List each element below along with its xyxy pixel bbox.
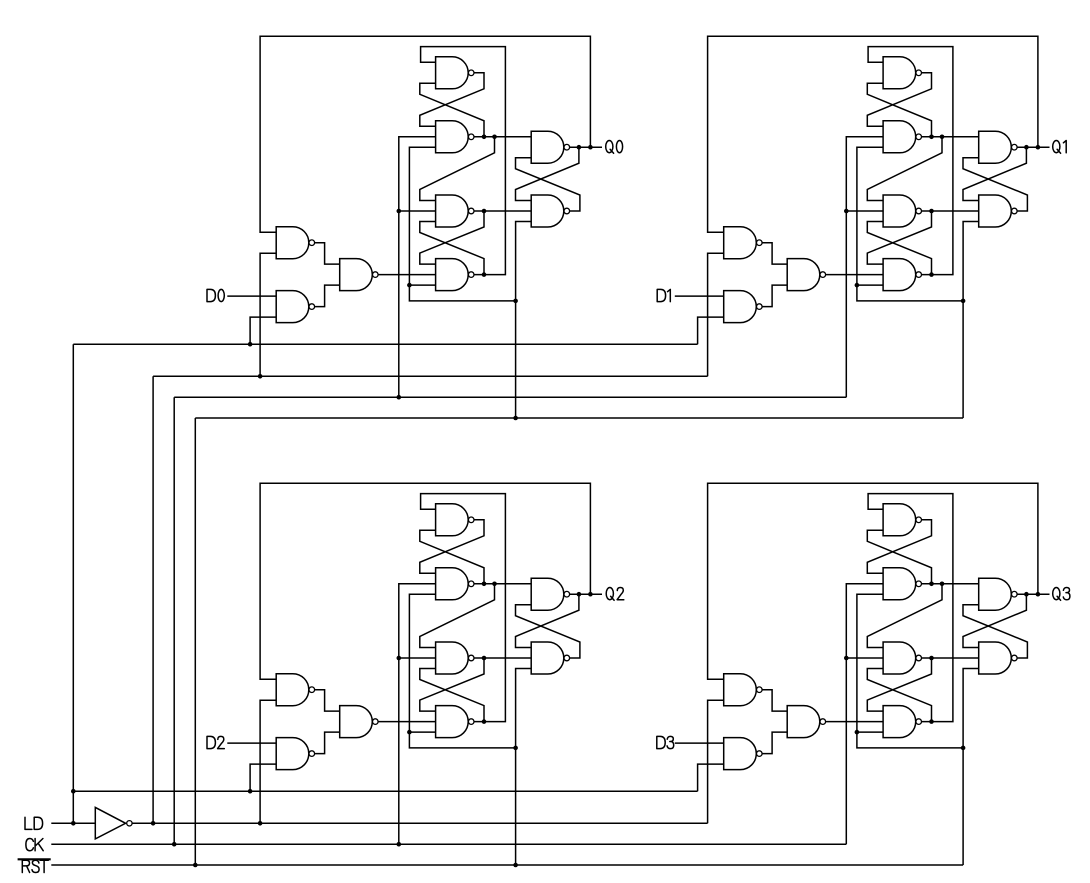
wire LDbar vertical	[152, 376, 154, 823]
wire bit1 set out to reset pin1	[867, 137, 942, 201]
NAND gate bit3 hold-select U3A	[724, 674, 762, 706]
wire bit2 hold gate output to combiner pin1	[315, 690, 340, 711]
wire LDbar rail row1	[153, 375, 708, 377]
node RST input tap	[193, 863, 198, 868]
NAND gate bit3 FF-latch2-bottom U3G	[883, 706, 921, 738]
wire bit3 Qbar out to Q pin2 cross	[963, 605, 1027, 658]
label Q1	[1053, 140, 1067, 153]
wire bit3 RST riser	[963, 669, 979, 866]
label LD	[25, 817, 43, 829]
wire bit3 reset out to latch2 pin1 cross	[867, 658, 931, 711]
node bit2 CK rail tap	[397, 842, 402, 847]
wire bit3 mux output to FF latch2 mid input	[826, 721, 883, 723]
NAND gate bit0 FF-latch1-top U0D	[436, 57, 474, 89]
NAND gate bit2 FF-reset U2F	[436, 642, 474, 674]
NAND gate bit2 hold-select U2A	[276, 674, 314, 706]
node bit2 RST rail tap	[513, 863, 518, 868]
wire bit2 Q feedback top rail to hold gate pin1	[260, 483, 590, 679]
inverter U10 LD	[95, 807, 132, 839]
wire bit2 latch2 out to reset pin3 cross	[420, 669, 484, 722]
wire bit2 Qbar out to Q pin2 cross	[516, 605, 580, 658]
wire bit0 latch1 out to set pin1 cross	[420, 73, 484, 127]
wire bit1 CK branch to FF-reset mid input	[846, 210, 883, 212]
NAND gate bit0 output-latch-Qbar U0J	[531, 195, 569, 227]
NAND gate bit2 output-latch-Qbar U2J	[531, 642, 569, 674]
wire bit1 mux output to FF latch2 mid input	[826, 274, 883, 276]
NAND gate bit3 output-latch-Qbar U3J	[979, 642, 1017, 674]
node bit2 Q output junction A	[577, 592, 582, 597]
node bit1 RST riser junction	[961, 299, 966, 304]
node bit0 latch2 output junction	[482, 272, 487, 277]
NAND gate bit2 load-select U2B	[276, 738, 314, 770]
NAND gate bit3 load-select U3B	[724, 738, 762, 770]
NAND gate bit2 FF-latch1-top U2D	[436, 504, 474, 536]
node bit1 CK branch junction	[844, 209, 849, 214]
wire bit0 set output row to Q-latch pin1	[474, 136, 531, 138]
wire RST input row2	[51, 864, 963, 866]
node bit0 CK branch junction	[397, 209, 402, 214]
node bit3 RST riser junction	[961, 746, 966, 751]
wire RST rail row1	[195, 417, 963, 419]
wire bit2 latch2 output feedback to latch1 pin1	[421, 494, 506, 722]
wire LD rail row1	[73, 343, 697, 345]
NAND gate bit0 FF-set U0E	[436, 121, 474, 153]
node bit0 RST riser junction	[513, 299, 518, 304]
node bit2 set output junction B	[492, 582, 497, 587]
node CK input tap	[172, 842, 177, 847]
wire bit1 RST riser	[963, 222, 979, 419]
wire bit1 LDbar riser to hold gate pin2	[708, 253, 724, 376]
wire bit0 latch2 output feedback to latch1 pin1	[421, 47, 506, 275]
wire bit1 set output row to Q-latch pin1	[922, 136, 979, 138]
node bit2 LDbar rail tap	[258, 821, 263, 826]
label Q2	[606, 587, 624, 600]
NAND gate bit0 mux-combine U0C	[340, 259, 378, 291]
NAND gate bit1 FF-reset U1F	[883, 195, 921, 227]
NAND gate bit1 FF-latch1-top U1D	[883, 57, 921, 89]
node bit1 set output junction B	[940, 135, 945, 140]
wire bit1 Qbar out to Q pin2 cross	[963, 158, 1027, 211]
node bit0 reset output junction	[482, 209, 487, 214]
node bit1 RST branch junction	[855, 283, 860, 288]
NAND gate bit1 load-select U1B	[724, 291, 762, 323]
wire bit3 CK branch to FF-reset mid input	[846, 657, 883, 659]
wire bit3 RST net vertical	[857, 594, 963, 748]
wire LDbar output row2	[132, 822, 707, 824]
node bit2 Q output junction B	[588, 592, 593, 597]
wire bit0 RST net vertical	[409, 147, 515, 301]
wire bit1 latch1 out to set pin1 cross	[867, 73, 931, 127]
label D3	[657, 736, 674, 748]
wire bit2 set out to reset pin1	[420, 584, 495, 648]
NAND gate bit0 output-latch-Q U0H	[531, 131, 569, 163]
wire bit3 LD riser to load gate pin2	[698, 764, 724, 791]
node bit0 LDbar rail tap	[258, 374, 263, 379]
wire bit0 Q out to Qbar pin1 cross	[516, 147, 579, 200]
wire bit1 LD riser to load gate pin2	[698, 317, 724, 344]
node LD rail row2 tap	[71, 789, 76, 794]
NAND gate bit1 mux-combine U1C	[787, 259, 825, 291]
wire bit3 D input	[675, 742, 724, 744]
NAND gate bit1 output-latch-Qbar U1J	[979, 195, 1017, 227]
wire bit2 RST riser	[516, 669, 532, 866]
wire bit3 hold gate output to combiner pin1	[762, 690, 787, 711]
node bit3 latch2 output junction	[929, 719, 934, 724]
label Q3	[1053, 587, 1070, 600]
wire bit0 Qbar out to Q pin2 cross	[516, 158, 580, 211]
label D0	[207, 289, 224, 301]
wire bit0 mux output to FF latch2 mid input	[378, 274, 435, 276]
NAND gate bit2 FF-latch2-bottom U2G	[436, 706, 474, 738]
node bit2 RST riser junction	[513, 746, 518, 751]
wire bit1 hold gate output to combiner pin1	[762, 243, 787, 264]
wire bit0 RST branch to latch2 pin3	[409, 284, 435, 286]
wire bit0 set out to reset pin1	[420, 137, 495, 201]
NAND gate bit3 FF-latch1-top U3D	[883, 504, 921, 536]
NAND gate bit2 FF-set U2E	[436, 568, 474, 600]
NAND gate bit2 mux-combine U2C	[340, 706, 378, 738]
wire bit1 set out to latch1 pin2 cross	[867, 83, 931, 137]
wire bit0 reset output row to Qbar-latch mid input	[474, 210, 531, 212]
node bit2 set output junction A	[482, 582, 487, 587]
label RST	[22, 860, 48, 872]
wire bit1 Q out to Qbar pin1 cross	[963, 147, 1026, 200]
node bit3 reset output junction	[929, 656, 934, 661]
node bit2 latch2 output junction	[482, 719, 487, 724]
wire bit0 CK riser into FF-set mid input	[399, 137, 436, 397]
node bit0 RST branch junction	[407, 283, 412, 288]
wire bit1 latch2 output feedback to latch1 pin1	[868, 47, 953, 275]
wire bit1 Q output row	[1017, 146, 1049, 148]
node bit3 RST branch junction	[855, 730, 860, 735]
wire bit0 D input	[227, 295, 276, 297]
wire bit2 LDbar riser to hold gate pin2	[260, 700, 276, 823]
NAND gate bit3 FF-set U3E	[883, 568, 921, 600]
NAND gate bit0 hold-select U0A	[276, 227, 314, 259]
label D1	[657, 289, 670, 301]
wire RST vertical	[194, 418, 196, 865]
wire bit2 set out to latch1 pin2 cross	[420, 530, 484, 584]
wire bit3 CK riser into FF-set mid input	[846, 584, 883, 844]
wire LD rail row2	[73, 790, 697, 792]
NAND gate bit1 hold-select U1A	[724, 227, 762, 259]
wire bit3 Q output row	[1017, 593, 1049, 595]
NAND gate bit1 output-latch-Q U1H	[979, 131, 1017, 163]
wire bit2 latch1 out to set pin1 cross	[420, 520, 484, 574]
wire RST overbar	[18, 858, 51, 860]
node bit0 RST rail tap	[513, 416, 518, 421]
wire bit1 CK riser into FF-set mid input	[846, 137, 883, 397]
wire bit1 reset output row to Qbar-latch mid input	[922, 210, 979, 212]
NAND gate bit0 FF-reset U0F	[436, 195, 474, 227]
label CK	[26, 839, 43, 851]
wire bit3 set output row to Q-latch pin1	[922, 583, 979, 585]
NAND gate bit0 load-select U0B	[276, 291, 314, 323]
node bit3 set output junction A	[929, 582, 934, 587]
node bit2 RST branch junction	[407, 730, 412, 735]
wire bit1 RST branch to latch2 pin3	[857, 284, 883, 286]
wire bit0 LD riser to load gate pin2	[250, 317, 276, 344]
node bit3 set output junction B	[940, 582, 945, 587]
wire bit2 Q out to Qbar pin1 cross	[516, 594, 579, 647]
NAND gate bit3 output-latch-Q U3H	[979, 578, 1017, 610]
node bit2 LD rail tap	[248, 789, 253, 794]
node bit1 reset output junction	[929, 209, 934, 214]
wire bit1 RST net vertical	[857, 147, 963, 301]
wire bit1 load gate output to combiner pin2	[762, 285, 787, 307]
wire bit0 reset out to latch2 pin1 cross	[420, 211, 484, 264]
wire CK rail row1	[174, 396, 846, 398]
node bit0 Q output junction A	[577, 145, 582, 150]
wire bit3 set out to latch1 pin2 cross	[867, 530, 931, 584]
NAND gate bit3 FF-reset U3F	[883, 642, 921, 674]
node bit3 CK branch junction	[844, 656, 849, 661]
node LD input tap	[71, 821, 76, 826]
wire bit1 reset out to latch2 pin1 cross	[867, 211, 931, 264]
wire bit3 Q feedback top rail to hold gate pin1	[708, 483, 1038, 679]
node LDbar riser tap	[151, 821, 156, 826]
wire bit0 latch2 out to reset pin3 cross	[420, 222, 484, 275]
NAND gate bit1 FF-latch2-bottom U1G	[883, 259, 921, 291]
wire LD input	[51, 822, 95, 824]
wire bit0 CK branch to FF-reset mid input	[399, 210, 436, 212]
NAND gate bit3 mux-combine U3C	[787, 706, 825, 738]
wire bit2 LD riser to load gate pin2	[250, 764, 276, 791]
wire CK input row2	[51, 843, 846, 845]
node bit0 CK rail tap	[397, 395, 402, 400]
wire bit2 load gate output to combiner pin2	[315, 732, 340, 754]
wire bit1 latch2 out to reset pin3 cross	[867, 222, 931, 275]
wire bit3 latch1 out to set pin1 cross	[867, 520, 931, 574]
wire bit2 CK branch to FF-reset mid input	[399, 657, 436, 659]
NAND gate bit2 output-latch-Q U2H	[531, 578, 569, 610]
wire bit0 load gate output to combiner pin2	[315, 285, 340, 307]
node bit1 set output junction A	[929, 135, 934, 140]
NAND gate bit0 FF-latch2-bottom U0G	[436, 259, 474, 291]
wire bit2 RST net vertical	[409, 594, 515, 748]
node bit1 Q output junction B	[1036, 145, 1041, 150]
wire bit0 Q feedback top rail to hold gate pin1	[260, 36, 590, 232]
wire bit1 Q feedback top rail to hold gate pin1	[708, 36, 1038, 232]
wire bit0 set out to latch1 pin2 cross	[420, 83, 484, 137]
node bit1 Q output junction A	[1024, 145, 1029, 150]
node bit0 Q output junction B	[588, 145, 593, 150]
wire bit3 latch2 output feedback to latch1 pin1	[868, 494, 953, 722]
wire bit3 latch2 out to reset pin3 cross	[867, 669, 931, 722]
wire bit2 RST branch to latch2 pin3	[409, 731, 435, 733]
wire LD vertical	[72, 344, 74, 823]
node bit0 set output junction A	[482, 135, 487, 140]
node bit2 CK branch junction	[397, 656, 402, 661]
node bit0 set output junction B	[492, 135, 497, 140]
node bit3 Q output junction A	[1024, 592, 1029, 597]
wire bit3 load gate output to combiner pin2	[762, 732, 787, 754]
wire bit2 mux output to FF latch2 mid input	[378, 721, 435, 723]
node bit2 reset output junction	[482, 656, 487, 661]
wire bit3 LDbar riser to hold gate pin2	[708, 700, 724, 823]
label Q0	[606, 140, 623, 153]
wire bit3 RST branch to latch2 pin3	[857, 731, 883, 733]
NAND gate bit1 FF-set U1E	[883, 121, 921, 153]
wire bit2 reset output row to Qbar-latch mid input	[474, 657, 531, 659]
wire bit3 set out to reset pin1	[867, 584, 942, 648]
wire bit3 reset output row to Qbar-latch mid input	[922, 657, 979, 659]
node bit3 Q output junction B	[1036, 592, 1041, 597]
label D2	[207, 736, 224, 748]
wire bit2 set output row to Q-latch pin1	[474, 583, 531, 585]
wire bit2 D input	[227, 742, 276, 744]
wire bit1 D input	[675, 295, 724, 297]
wire bit3 Q out to Qbar pin1 cross	[963, 594, 1026, 647]
wire bit0 LDbar riser to hold gate pin2	[260, 253, 276, 376]
wire CK vertical	[173, 397, 175, 844]
wire bit0 hold gate output to combiner pin1	[315, 243, 340, 264]
node bit1 latch2 output junction	[929, 272, 934, 277]
wire bit2 Q output row	[570, 593, 602, 595]
wire bit0 RST riser	[516, 222, 532, 419]
wire bit2 reset out to latch2 pin1 cross	[420, 658, 484, 711]
wire bit0 Q output row	[570, 146, 602, 148]
wire bit2 CK riser into FF-set mid input	[399, 584, 436, 844]
node bit0 LD rail tap	[248, 342, 253, 347]
